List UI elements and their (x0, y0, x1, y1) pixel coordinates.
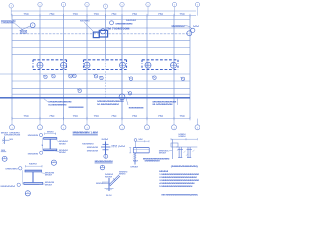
detail4 caption underline (95, 162, 113, 164)
svg-text:5.MMMMMMMMMMMMMMM: 5.MMMMMMMMMMMMMMM (159, 186, 192, 188)
leader T3 line (126, 98, 128, 105)
callout circle mid (110, 21, 114, 25)
svg-text:MMMMMM: MMMMMM (172, 25, 185, 27)
detail1 bubble (2, 156, 7, 161)
detail2 leader r1 (57, 141, 59, 143)
chain circle b (191, 28, 195, 32)
detail5 hline b (102, 182, 109, 184)
detail2 leader r2 (54, 150, 59, 153)
svg-text:M-MMMMMM: M-MMMMMM (153, 104, 173, 106)
svg-text:1: 1 (63, 4, 64, 6)
svg-text:MM: MM (112, 146, 118, 148)
detail3 leader r2 (39, 183, 45, 185)
svg-text:1: 1 (122, 4, 123, 6)
svg-text:1: 1 (11, 6, 12, 8)
brace dashed rect 3 (142, 60, 178, 70)
detail4 bubble (100, 165, 105, 170)
svg-text:M:M: M:M (106, 195, 112, 197)
svg-text:MM: MM (133, 161, 139, 163)
detail7 bolt1 (178, 147, 180, 158)
detail2 bubble (51, 160, 56, 165)
detail7 ground line (176, 146, 197, 148)
detail4 tick2 (101, 146, 110, 148)
svg-text:MMM: MMM (96, 183, 103, 185)
bolt symbol (101.5,78) (100, 76, 103, 79)
dimension values 750 top (23, 14, 185, 16)
svg-text:3.MMMMMMMMMMMMMMMMMM: 3.MMMMMMMMMMMMMMMMMM (159, 180, 199, 182)
svg-text:MMMMM: MMMMM (129, 107, 144, 109)
detail1 scale line (1, 151, 6, 153)
svg-text:1.MMMMMMMMMMMMMMMMMM: 1.MMMMMMMMMMMMMMMMMM (159, 174, 199, 176)
svg-text:MM: MM (139, 139, 144, 141)
svg-text:MM: MM (21, 32, 27, 34)
brace node circle x=173.5 (171, 62, 177, 68)
svg-text:MM: MM (102, 139, 109, 141)
dimension line top second (12, 19, 190, 21)
svg-text:MMMMMMM 1:MM: MMMMMMM 1:MM (73, 131, 99, 135)
leader T4 line (177, 98, 179, 105)
svg-text:4.MMMMMMMMMMMMMMMM: 4.MMMMMMMMMMMMMMMM (159, 182, 195, 185)
detail2 top dim line (45, 133, 56, 135)
purlin line 8 (12, 87, 190, 89)
bolt symbol (154.5,77.6) (153, 76, 156, 79)
detail2 beam web (49, 139, 51, 149)
bolt symbol (183,78.8) (181, 77, 184, 80)
svg-text:MMM: MMM (131, 166, 139, 168)
detail2 beam top flange (44, 137, 57, 139)
detail2 left circle1 (39, 133, 42, 136)
svg-text:MM: MM (10, 139, 14, 141)
grid line 3 x=63.5 (63, 16, 65, 119)
svg-text:(MMMMMMMMM): (MMMMMMMMM) (171, 166, 198, 168)
svg-text:M-MMMMMMM: M-MMMMMMM (48, 104, 66, 106)
detail4 tick3 (103, 149, 109, 151)
detail5 lower ticks (105, 187, 114, 189)
small boxed label (20, 30, 27, 33)
detail5 hline a (102, 181, 109, 183)
detail5 diag ticks (113, 178, 116, 180)
detail1 column line (4, 136, 6, 144)
grid line 5 lower dashed (105, 60, 107, 99)
detail2 beam bottom flange (44, 148, 57, 150)
svg-text:MMMMMMM: MMMMMMM (116, 23, 133, 25)
circle on bold squares (100, 29, 105, 34)
detail3 leader r1 (42, 172, 45, 175)
svg-text:1: 1 (174, 4, 175, 6)
grid line 2 x=40 (39, 16, 41, 119)
svg-text:MMM: MMM (47, 131, 54, 133)
bold square 2 (99, 30, 107, 37)
bolt symbol (130,93.3) (128, 92, 131, 95)
svg-text:MMMMMM: MMMMMM (28, 135, 39, 137)
grid bubbles top (9, 2, 200, 15)
detail4 tick1 (103, 143, 109, 145)
svg-text:1: 1 (87, 4, 88, 6)
detail5 vertical (108, 178, 110, 191)
callout circle top-left (30, 23, 35, 28)
detail6 beam (133, 147, 149, 149)
detail3 left circle1 (19, 167, 22, 170)
svg-text:MMMMM: MMMMM (87, 147, 99, 149)
bolt symbol (53.5,76.2) (52, 75, 55, 78)
svg-text:MMM: MMM (59, 143, 66, 145)
leader top-mid diagonal (84, 22, 93, 31)
bold square 1 (93, 32, 99, 38)
svg-text:MMMMMMMMMM: MMMMMMMMMM (97, 101, 124, 103)
detail4 stem (105, 142, 107, 155)
purlin line 6 (0, 73, 190, 75)
bolt symbol (79.7,90.7) (78, 89, 81, 92)
svg-text:MMMMMM: MMMMMM (28, 153, 39, 155)
detail1 flange line (2, 139, 10, 141)
grid line 1 x=12 (11, 16, 13, 119)
detail4 circle symbol (104, 154, 108, 158)
leader top-right (185, 26, 192, 29)
svg-text:2.MMMMMMMMMMMMMMMMM: 2.MMMMMMMMMMMMMMMMM (159, 177, 197, 179)
detail2 left dim (41, 138, 43, 151)
svg-text:MMM: MMM (119, 174, 126, 176)
purlin line 3 (12, 40, 190, 42)
purlin line 4 (12, 47, 190, 49)
svg-text:MMM: MMM (159, 171, 168, 173)
svg-text:MMMMM: MMMMM (87, 150, 99, 152)
svg-text:MM: MM (1, 150, 6, 152)
grid bubbles bottom (10, 119, 201, 130)
brace node circle x=122.5 (120, 62, 126, 68)
plan title underline (73, 134, 98, 136)
purlin line 7 (12, 80, 190, 82)
detail3 left dim (22, 170, 24, 184)
detail3 beam top flange (25, 169, 42, 171)
detail4 dashed right (110, 146, 117, 148)
svg-text:MM MMMMMMMMMMMM(MMM): MM MMMMMMMMMMMM(MMM) (162, 195, 198, 197)
plan bottom edge thick (0, 97, 190, 99)
detail3 beam bottom flange (24, 182, 43, 184)
detail3 top dim line (26, 165, 43, 167)
svg-text:(MM: (MM (118, 146, 126, 148)
svg-text:MMM: MMM (45, 175, 53, 177)
detail5 diagonal (109, 175, 121, 186)
svg-text:M-MMMMMMM: M-MMMMMMM (97, 104, 119, 106)
svg-text:1: 1 (40, 4, 41, 6)
brace node circle x=63.5 (61, 62, 67, 68)
svg-text:MMM: MMM (179, 136, 187, 138)
overall dimension line top (11, 10, 196, 12)
detail3 beam web (32, 172, 34, 183)
grid line 5 x=105.5 (105, 16, 107, 60)
label top-left underline (1, 21, 16, 23)
dimension values bottom (23, 116, 185, 118)
bolt symbol (74.5,75.9) (73, 74, 76, 77)
bolt symbol (70.5,76.2) (69, 75, 72, 78)
detail6 left dim (129, 148, 131, 153)
purlin line 2 (12, 33, 190, 35)
detail7 left vline (171, 139, 173, 159)
detail7 dim line (171, 138, 197, 140)
svg-text:MMM: MMM (159, 153, 167, 155)
bolt symbol (96,76.2) (94, 75, 97, 78)
svg-text:MMMMM: MMMMM (69, 107, 84, 109)
detail6 bolt circle (134, 139, 137, 142)
brace node circle x=87 (84, 62, 90, 68)
grid line 7 x=147 (146, 16, 148, 119)
svg-text:MMM: MMM (45, 184, 53, 186)
detail5 leader (103, 182, 107, 184)
svg-text:MMMMMMMMM: MMMMMMMMM (48, 102, 71, 104)
brace dashed rect 2 (84, 60, 127, 70)
grid line 6 x=122 (121, 16, 123, 119)
svg-text:MMM: MMM (29, 164, 37, 166)
detail7 bolt2 (187, 147, 189, 158)
brace node circle x=148 (145, 62, 151, 68)
purlin line 9 (12, 93, 190, 95)
svg-text:MMMMMMM: MMMMMMM (145, 161, 160, 163)
detail1 hatch (3, 137, 5, 143)
svg-text:MMMM: MMMM (126, 20, 137, 22)
purlin line 5 (12, 53, 190, 55)
dimension ticks top (12, 14, 190, 18)
node circle on bottom edge (119, 94, 125, 100)
grid line 9 x=190 (189, 16, 191, 119)
bolt symbol (45.5,76.8) (44, 75, 47, 78)
detail3 left circle2 (17, 183, 20, 186)
svg-text:MMM: MMM (59, 152, 66, 154)
svg-text:MMMMM: MMMMM (82, 144, 94, 146)
svg-text:MMMMMM: MMMMMM (4, 135, 21, 137)
bolt symbol (131,78.6) (129, 77, 132, 80)
detail6 hatch (133, 153, 136, 159)
plan top edge (0, 27, 190, 29)
svg-text:1: 1 (197, 4, 198, 6)
detail6 dim line (136, 140, 150, 142)
dimension line bottom (12, 118, 190, 120)
leader top-left (14, 23, 31, 31)
svg-text:1: 1 (148, 4, 149, 6)
svg-text:MM: MM (193, 26, 200, 28)
leader T1 line (43, 98, 48, 102)
svg-text:7M 700M700M: 7M 700M700M (106, 28, 130, 30)
grid line 8 x=174 (173, 16, 175, 119)
svg-text:1: 1 (105, 6, 106, 8)
svg-text:L-MMMMMMM: L-MMMMMMM (1, 23, 14, 25)
svg-text:MMMMM: MMMMM (1, 186, 16, 188)
brace node circle x=40 (37, 62, 43, 68)
detail6 stem (134, 153, 136, 165)
svg-text:MMMMM: MMMMM (6, 168, 18, 170)
label top-right underline (172, 26, 185, 28)
detail3 bubble (25, 191, 30, 196)
detail7 box (171, 143, 178, 147)
svg-text:MMMM: MMMM (80, 21, 90, 23)
dimension ticks bottom (12, 117, 190, 120)
grid line 4 x=87 (86, 16, 88, 119)
brace dashed rect 1 (33, 60, 67, 70)
dimension line top (12, 15, 196, 17)
detail2 left circle2 (40, 151, 43, 154)
detail7 hatch (177, 149, 195, 156)
chain circle a (187, 31, 192, 36)
